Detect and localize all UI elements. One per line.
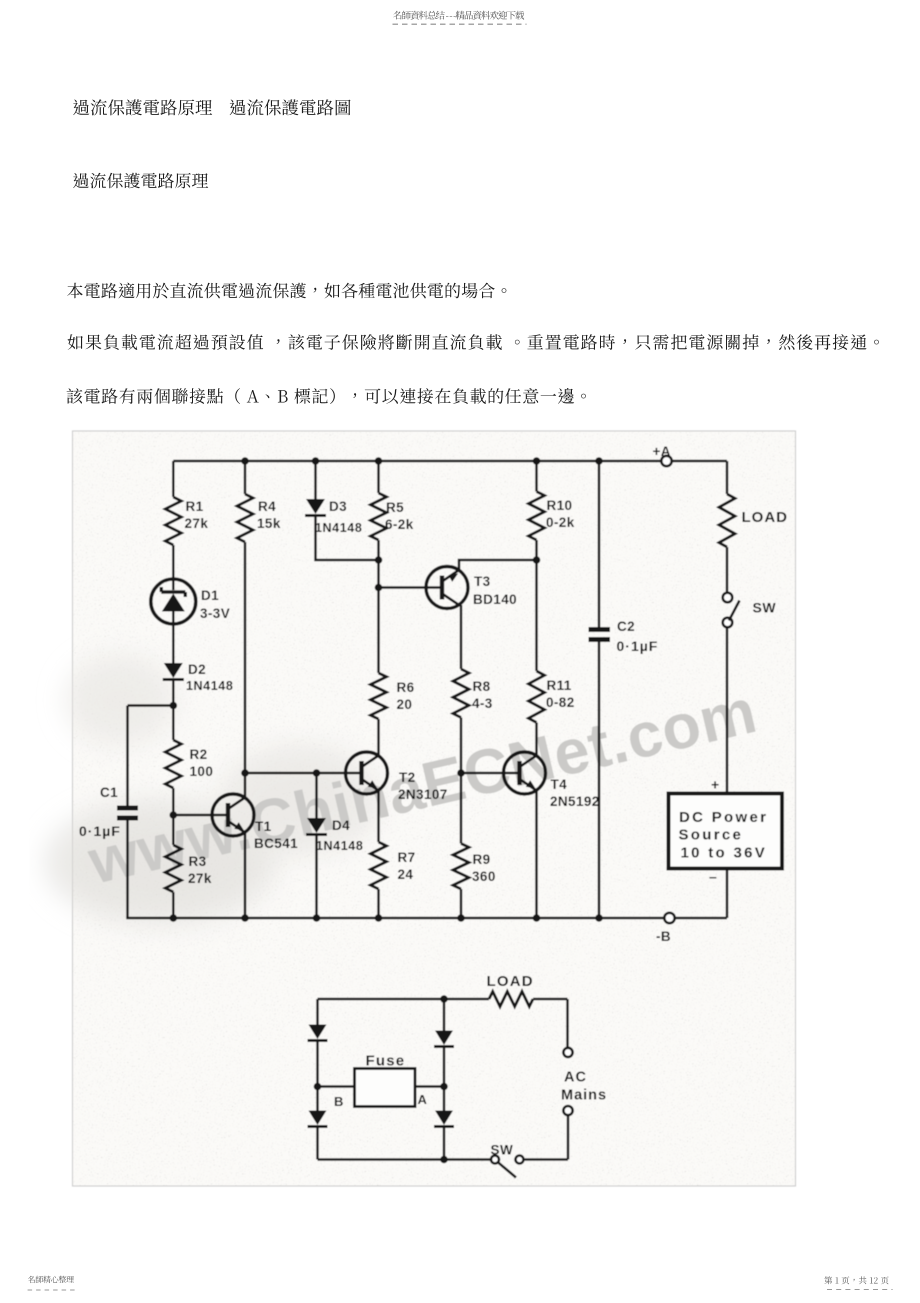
circuit2: top wire (318, 998, 490, 1001)
paragraph 3 (67, 388, 586, 404)
resistor R7 (371, 842, 387, 889)
svg-text:BC541: BC541 (254, 836, 298, 851)
header dashed line (393, 23, 527, 25)
svg-text:Source: Source (679, 827, 744, 844)
DC power source U1 (669, 794, 783, 869)
circuit2: left column (316, 999, 319, 1025)
wire (172, 545, 175, 579)
wire DC source to rail (726, 870, 729, 919)
node +A terminal (661, 456, 671, 466)
svg-text:4-3: 4-3 (472, 696, 493, 711)
wire colG (598, 461, 601, 627)
top rail (173, 460, 727, 463)
resistor R5 (371, 493, 387, 540)
svg-text:1N4148: 1N4148 (316, 839, 363, 853)
transistor T1 (173, 814, 228, 817)
bridge diode bottom-middle (435, 1111, 453, 1126)
resistor R2 (165, 740, 181, 788)
diode D3 (306, 499, 325, 514)
svg-text:T1: T1 (255, 819, 272, 834)
fuse F1 (318, 1085, 355, 1088)
svg-text:C2: C2 (617, 619, 635, 634)
svg-text:R1: R1 (186, 499, 204, 514)
transistor T4 (461, 772, 520, 775)
wire colC to R5 column (316, 516, 379, 561)
svg-text:360: 360 (472, 869, 496, 884)
svg-text:R5: R5 (386, 500, 404, 515)
svg-text:R7: R7 (398, 850, 416, 865)
wire T1 emitter (244, 833, 247, 919)
circuit2: middle column (443, 999, 446, 1031)
svg-text:SW: SW (753, 600, 777, 616)
footer left text (28, 1276, 74, 1283)
svg-text:T2: T2 (399, 770, 416, 785)
svg-text:R2: R2 (190, 747, 208, 762)
wire + node T1 base (172, 788, 175, 845)
svg-text:D1: D1 (201, 588, 219, 603)
footer left dashed line (28, 1289, 78, 1291)
wire (172, 892, 175, 918)
capacitor C2 (589, 627, 611, 632)
svg-text:2N5192: 2N5192 (550, 794, 600, 809)
svg-text:0-2k: 0-2k (546, 515, 575, 530)
transistor T3 (379, 586, 443, 589)
switch SW (723, 593, 733, 603)
wire (533, 998, 568, 1001)
wire T3 emitter to R8 (460, 605, 463, 669)
resistor LOAD (719, 494, 735, 547)
svg-text:C1: C1 (100, 785, 118, 800)
resistor R1 (165, 497, 181, 545)
wire (172, 624, 175, 663)
svg-text:SW: SW (491, 1143, 514, 1158)
svg-text:Mains: Mains (561, 1088, 607, 1104)
svg-text:Fuse: Fuse (366, 1053, 406, 1070)
wire colH (726, 461, 729, 494)
svg-text:+: + (711, 777, 720, 793)
resistor R3 (165, 845, 181, 892)
wire colA (172, 461, 175, 497)
svg-text:R8: R8 (473, 679, 491, 694)
svg-text:D2: D2 (188, 662, 206, 677)
svg-text:0·1µF: 0·1µF (617, 638, 659, 654)
svg-text:T4: T4 (551, 777, 568, 792)
circuit2: bottom wire + switch SW (524, 1158, 568, 1161)
resistor R6 (371, 673, 387, 719)
paragraph 1 (67, 283, 506, 299)
svg-text:0-82: 0-82 (546, 695, 575, 710)
svg-text:T3: T3 (474, 574, 491, 589)
svg-text:15k: 15k (257, 516, 281, 531)
svg-text:6-2k: 6-2k (385, 517, 414, 532)
zener diode D1 (151, 579, 196, 624)
svg-text:D3: D3 (329, 499, 347, 514)
resistor R4 (237, 494, 253, 542)
title row (73, 99, 212, 115)
wire C1 branch (128, 706, 174, 807)
resistor R11 (529, 671, 545, 723)
resistor R9 (453, 844, 469, 890)
svg-text:D4: D4 (332, 818, 350, 833)
wire colB (244, 461, 247, 494)
svg-text:R4: R4 (258, 499, 276, 514)
svg-text:24: 24 (398, 867, 414, 882)
subtitle (73, 173, 208, 189)
wire T2 emitter to R7 (377, 791, 380, 843)
header text (393, 11, 524, 20)
diode D4 (315, 773, 318, 818)
wire T3 collector to colF (459, 560, 537, 571)
svg-text:LOAD: LOAD (742, 509, 789, 526)
footer right text (824, 1276, 888, 1284)
resistor R10 (529, 492, 545, 541)
bridge diode bottom-left (309, 1111, 327, 1126)
wire node (535, 540, 538, 671)
wire colB down, node to T2 base (244, 542, 247, 798)
wire (377, 889, 380, 918)
svg-text:+A: +A (653, 444, 671, 459)
wire colC (314, 461, 317, 499)
svg-text:–: – (709, 869, 717, 885)
svg-text:0·1µF: 0·1µF (79, 823, 121, 839)
svg-text:R9: R9 (473, 852, 491, 867)
bridge diode top-middle (435, 1031, 453, 1046)
wire SW to DC source (726, 627, 729, 794)
svg-text:B: B (334, 1094, 344, 1109)
svg-text:BD140: BD140 (473, 592, 517, 607)
svg-text:DC Power: DC Power (679, 809, 768, 826)
wire to T4 (535, 723, 538, 756)
svg-text:R6: R6 (397, 680, 415, 695)
node -B terminal (664, 913, 674, 923)
transistor T2 (245, 772, 362, 775)
svg-text:AC: AC (564, 1070, 587, 1086)
bridge diode top-left (309, 1025, 327, 1040)
svg-text:R3: R3 (189, 854, 207, 869)
svg-text:R11: R11 (547, 678, 572, 693)
bottom rail (126, 917, 727, 920)
wire to T2 collector (377, 719, 380, 756)
svg-text:2N3107: 2N3107 (398, 787, 448, 802)
svg-text:27k: 27k (185, 516, 209, 531)
svg-text:27k: 27k (188, 871, 212, 886)
svg-text:100: 100 (190, 764, 214, 779)
circuit2: right column / AC mains (566, 999, 569, 1048)
wire T4 emitter (535, 791, 538, 919)
resistor R8 (453, 669, 469, 718)
wire colF (535, 461, 538, 492)
svg-text:A: A (418, 1092, 428, 1107)
wire + node to C1 (172, 680, 175, 741)
wire (460, 889, 463, 918)
circuit2: LOAD resistor (489, 992, 533, 1007)
svg-text:20: 20 (397, 697, 413, 712)
svg-text:3-3V: 3-3V (200, 606, 230, 621)
image frame (73, 431, 796, 1186)
svg-text:-B: -B (656, 929, 671, 944)
svg-text:1N4148: 1N4148 (186, 679, 233, 693)
paragraph 2 (68, 334, 879, 350)
capacitor C1 (117, 806, 138, 811)
diode D2 (164, 663, 183, 678)
svg-text:1N4148: 1N4148 (315, 521, 362, 535)
wire colD (377, 461, 380, 493)
footer right dashed line (827, 1289, 893, 1291)
svg-text:LOAD: LOAD (487, 973, 534, 990)
svg-text:R10: R10 (547, 498, 573, 513)
wire to SW (726, 547, 729, 593)
wire colD nodes (377, 540, 380, 673)
wire node T4 base (460, 718, 463, 844)
svg-text:10 to 36V: 10 to 36V (681, 845, 768, 862)
